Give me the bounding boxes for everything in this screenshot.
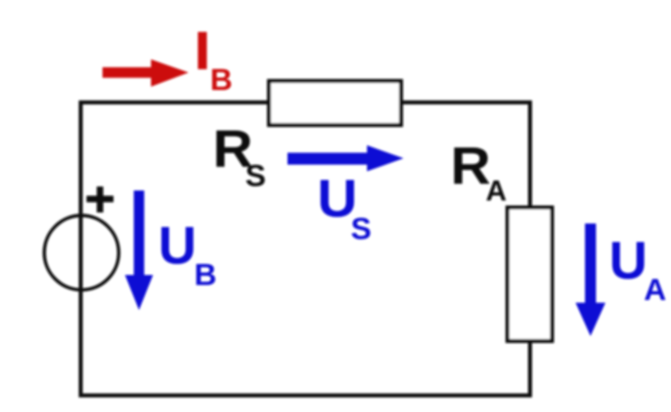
svg-text:B: B [194, 257, 216, 292]
svg-text:B: B [210, 62, 232, 97]
svg-text:S: S [351, 211, 372, 246]
svg-text:A: A [644, 272, 666, 307]
svg-text:R: R [451, 136, 491, 195]
svg-text:U: U [609, 232, 647, 291]
svg-text:U: U [158, 217, 196, 276]
svg-text:A: A [486, 176, 507, 208]
svg-text:S: S [245, 158, 266, 193]
